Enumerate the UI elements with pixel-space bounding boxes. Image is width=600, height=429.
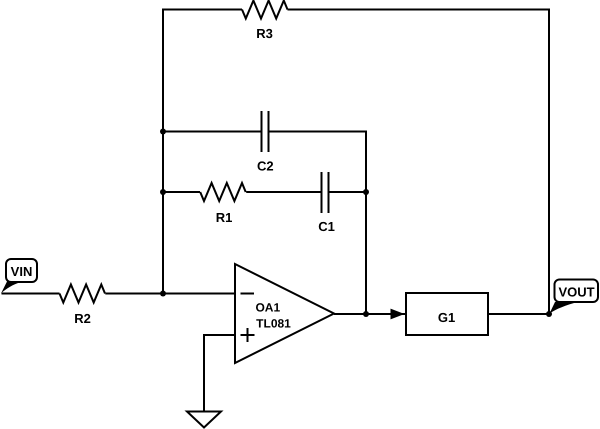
- wire: [330, 191, 367, 193]
- capacitor C1: [318, 172, 335, 234]
- junction: [160, 129, 166, 135]
- wire: [163, 191, 200, 193]
- wire: [269, 132, 367, 315]
- block G1: [406, 293, 488, 335]
- svg-text:VOUT: VOUT: [558, 285, 594, 300]
- resistor R3: [242, 1, 288, 42]
- wire: [2, 293, 60, 295]
- flag VOUT: [550, 280, 599, 314]
- wire: [105, 293, 235, 295]
- arrow: [391, 309, 405, 320]
- svg-text:TL081: TL081: [256, 317, 291, 331]
- flag VIN: [1, 259, 37, 294]
- wire: [334, 313, 406, 315]
- wire: [288, 10, 550, 315]
- svg-text:R2: R2: [74, 311, 91, 326]
- wire: [488, 313, 549, 315]
- wire: [163, 131, 262, 133]
- svg-text:C1: C1: [318, 219, 335, 234]
- op-amp OA1: [235, 264, 334, 363]
- junction: [160, 189, 166, 195]
- junction: [546, 311, 552, 317]
- svg-text:VIN: VIN: [11, 264, 33, 279]
- junction: [363, 311, 369, 317]
- svg-text:R3: R3: [256, 26, 273, 41]
- junction: [363, 189, 369, 195]
- svg-text:OA1: OA1: [255, 301, 280, 315]
- wire: [163, 10, 242, 294]
- resistor R1: [200, 183, 246, 225]
- resistor R2: [60, 285, 105, 327]
- ground: [187, 412, 221, 428]
- svg-text:C2: C2: [257, 159, 274, 174]
- svg-text:G1: G1: [438, 310, 455, 325]
- svg-text:R1: R1: [216, 210, 233, 225]
- wire: [246, 191, 320, 193]
- capacitor C2: [257, 111, 274, 174]
- wire: [204, 335, 235, 412]
- junction: [160, 291, 166, 297]
